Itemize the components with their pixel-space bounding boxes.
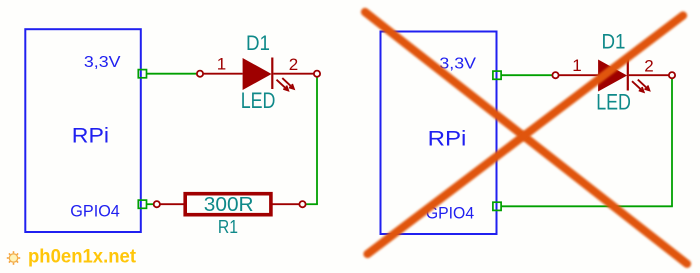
D1 pin 1 end circle (left)	[197, 71, 203, 77]
svg-text:RPi: RPi	[428, 128, 467, 151]
wire D1 cathode down (left)	[316, 74, 318, 205]
svg-text:ph0en1x.net: ph0en1x.net	[28, 247, 137, 268]
wire GPIO4 pin direct to D1 cathode (right)	[501, 205, 673, 207]
D1 pin 2 lead (right)	[629, 74, 669, 76]
LED D1 (left)	[197, 32, 320, 113]
D1 pin 2 lead (left)	[273, 73, 314, 75]
LED D1 (right)	[552, 30, 675, 114]
svg-text:300R: 300R	[204, 194, 254, 216]
cross-out X stroke 2	[368, 16, 684, 255]
D1 cathode bar (right)	[627, 59, 629, 91]
D1 anode triangle (right)	[598, 60, 627, 92]
sheet pin square GPIO4 (left)	[138, 200, 146, 208]
R1 pin 2 end circle	[299, 201, 305, 207]
svg-text:2: 2	[644, 56, 653, 75]
svg-text:1: 1	[572, 56, 581, 75]
wire corner to R1 right pin (left)	[303, 203, 318, 205]
D1 pin 2 end circle (left)	[314, 71, 320, 77]
sheet pin square 3,3V (left)	[138, 70, 146, 78]
D1 pin 1 lead (right)	[559, 74, 599, 76]
svg-text:LED: LED	[241, 88, 276, 113]
svg-text:R1: R1	[218, 217, 238, 237]
D1 pin 1 lead (left)	[203, 73, 243, 75]
sheet pin square 3,3V (right)	[493, 71, 501, 79]
svg-text:3,3V: 3,3V	[84, 54, 121, 71]
watermark sun icon	[7, 251, 20, 265]
sheet pin square GPIO4 (right)	[493, 202, 501, 210]
D1 anode triangle (left)	[243, 58, 272, 90]
D1 light arrow 1 (left)	[277, 80, 289, 91]
svg-text:2: 2	[289, 55, 298, 74]
svg-text:GPIO4: GPIO4	[70, 202, 120, 221]
svg-text:D1: D1	[246, 32, 270, 55]
wire 3,3V pin to D1 anode (left)	[147, 73, 201, 75]
D1 light arrow 2 (left)	[282, 78, 294, 89]
cross-out X stroke 1	[365, 12, 687, 264]
resistor R1	[154, 194, 306, 237]
R1 body	[185, 194, 271, 215]
sheet block RPi (left)	[25, 29, 141, 232]
R1 pin 2 lead	[273, 203, 300, 205]
svg-text:RPi: RPi	[72, 125, 109, 148]
R1 pin 1 end circle	[154, 201, 160, 207]
svg-text:D1: D1	[602, 30, 626, 53]
R1 pin 1 lead	[160, 203, 184, 205]
D1 pin 1 end circle (right)	[552, 72, 558, 78]
D1 pin 2 end circle (right)	[669, 72, 675, 78]
wire 3,3V pin to D1 anode (right)	[501, 74, 555, 76]
wire D1 cathode down (right)	[671, 75, 673, 206]
D1 light arrow 1 (right)	[632, 81, 644, 92]
svg-text:LED: LED	[596, 90, 631, 115]
D1 light arrow 2 (right)	[638, 80, 650, 91]
svg-text:1: 1	[217, 55, 226, 74]
D1 cathode bar (left)	[271, 58, 273, 90]
sheet block RPi (right)	[381, 32, 497, 235]
wire GPIO4 pin to R1 left pin (left)	[147, 203, 157, 205]
